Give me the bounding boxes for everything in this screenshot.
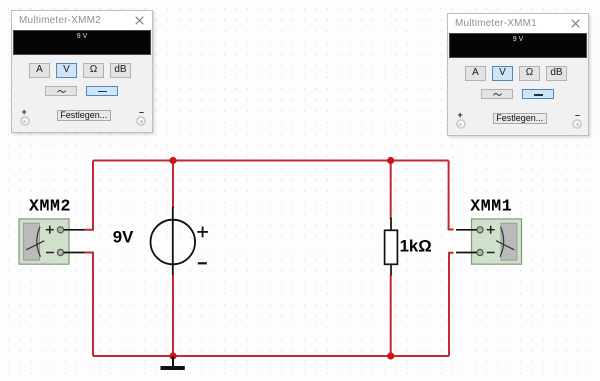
junction top right bbox=[387, 157, 394, 164]
svg-text:9V: 9V bbox=[113, 228, 134, 247]
wire bottom horizontal bbox=[93, 355, 449, 357]
svg-text:XMM2: XMM2 bbox=[29, 196, 71, 215]
wire left vertical lower bbox=[85, 253, 94, 357]
resistor R1 bbox=[385, 218, 398, 276]
svg-text:XMM1: XMM1 bbox=[470, 196, 512, 215]
wire top horizontal bbox=[93, 160, 449, 162]
multimeter window XMM1 bbox=[447, 13, 589, 136]
svg-text:1kΩ: 1kΩ bbox=[400, 237, 432, 256]
wire resistor branch lower bbox=[390, 275, 392, 357]
junction bottom left bbox=[169, 352, 176, 359]
wire right vertical upper bbox=[449, 161, 454, 230]
wire middle vertical lower bbox=[172, 275, 174, 357]
wire resistor branch upper bbox=[390, 161, 392, 220]
wire left vertical upper bbox=[85, 161, 94, 230]
multimeter icon XMM2 bbox=[19, 219, 85, 264]
multimeter window XMM2 bbox=[11, 10, 153, 133]
multimeter icon XMM1 bbox=[456, 219, 522, 264]
wire right vertical lower bbox=[449, 253, 454, 356]
wire middle vertical upper bbox=[172, 161, 174, 209]
ground bbox=[161, 356, 185, 368]
junction bottom right bbox=[387, 352, 394, 359]
junction top left bbox=[169, 157, 176, 164]
voltage source V1 bbox=[151, 207, 209, 276]
